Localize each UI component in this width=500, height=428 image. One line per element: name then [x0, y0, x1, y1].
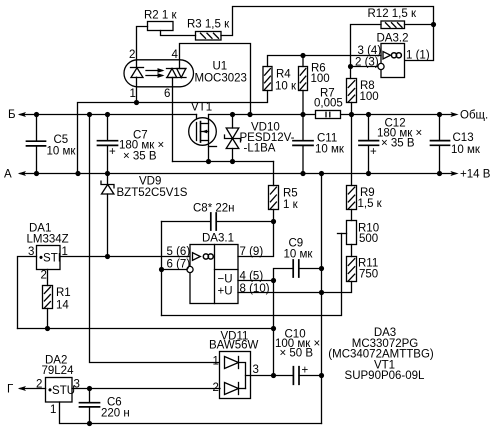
node Б arrow	[18, 112, 26, 117]
svg-text:C8* 22н: C8* 22н	[193, 203, 235, 215]
node +14 В arrow	[450, 171, 458, 176]
svg-text:R12 1,5 к: R12 1,5 к	[368, 8, 417, 20]
U1 triac bottom bar	[167, 77, 187, 79]
DA2 body	[46, 378, 73, 403]
C9 plates	[293, 260, 299, 277]
wire R9 column from bus Общ across bus А	[351, 115, 353, 186]
VD11 diode 1 cathode join	[239, 363, 246, 389]
wire VT1 gate drop	[196, 115, 198, 141]
C13 plates	[431, 141, 450, 146]
wire DA2 pin 1 down and bottom line to +U column	[60, 402, 322, 424]
suppressor VD10 column	[232, 115, 234, 129]
wire C9 branch from pin4 node	[274, 269, 294, 281]
U1 triac top bar	[167, 68, 187, 70]
shunt resistor R7 body	[316, 111, 341, 119]
svg-text:79L24: 79L24	[42, 365, 75, 377]
resistor R4 power slashes	[265, 69, 271, 90]
svg-text:750: 750	[359, 269, 378, 281]
transistor VT1 circle	[189, 118, 217, 146]
resistor R5 body	[269, 186, 279, 210]
wire R8 bottom lead	[351, 103, 353, 115]
wire R12 left lead and column to R8 top	[351, 25, 382, 79]
node junction VD10 bottom	[230, 159, 235, 164]
wire R6 top lead	[302, 56, 304, 67]
svg-text:+: +	[109, 146, 116, 158]
U1 LED triangle	[131, 68, 143, 78]
capacitor C12 column	[368, 115, 370, 141]
svg-text:C5: C5	[54, 134, 69, 146]
svg-text:5 (6): 5 (6)	[167, 246, 191, 258]
wire DA1 pin 3 down to minus-rail line	[18, 257, 37, 329]
wire DA3.1 pin 8 (+U) to R11 bottom	[238, 282, 352, 293]
VD11 diode 1 triangle	[225, 357, 239, 369]
VD11 diode 2 triangle	[225, 383, 239, 395]
svg-text:10 мк: 10 мк	[451, 144, 481, 156]
op-amp DA3.1 body	[190, 245, 238, 304]
U1 light arrow lower	[146, 75, 162, 77]
wire R9-R10 lead	[351, 210, 353, 221]
node junction C6 bottom	[87, 421, 92, 426]
svg-text:VD9: VD9	[139, 176, 161, 188]
VD11 diode 1 cathode bar	[238, 357, 240, 369]
svg-text:100: 100	[360, 91, 379, 103]
wire R10-R11 lead	[351, 245, 353, 257]
wire R6 bottom lead	[302, 91, 304, 115]
svg-text:1: 1	[213, 356, 219, 368]
resistor R6 power slashes	[300, 69, 306, 90]
svg-text:+: +	[302, 365, 309, 377]
wire DA3.1 pin 4 (-U)	[238, 280, 274, 282]
C8 plates	[211, 213, 216, 230]
wire drain line from U1 pin 6 to R5 column	[173, 161, 274, 163]
resistor R11 body	[347, 257, 357, 282]
capacitor C10 wire left	[274, 375, 294, 377]
node junction U1 pin1 on W1	[134, 100, 139, 105]
wire -U column down to VD11/C10 node	[273, 281, 275, 376]
svg-text:MOC3023: MOC3023	[195, 73, 247, 85]
wire R5 bottom lead to C8 node	[273, 210, 275, 222]
C11 plates	[293, 141, 313, 146]
svg-text:BAW56W: BAW56W	[209, 340, 259, 352]
svg-text:•STU: •STU	[48, 385, 75, 397]
wire pin6 feedback column	[161, 222, 163, 316]
svg-text:R2 1 к: R2 1 к	[144, 10, 177, 22]
wire R10 wiper down and feedback line to pin6 column	[162, 234, 342, 316]
resistor R8 power slashes	[348, 81, 354, 102]
svg-text:10 к: 10 к	[275, 81, 297, 93]
svg-text:R3 1,5 к: R3 1,5 к	[187, 19, 230, 31]
node junction VT1 drain	[206, 159, 211, 164]
svg-text:+14 В: +14 В	[460, 169, 491, 181]
resistor R11 power slashes	[348, 259, 354, 281]
U1 light arrow upper	[146, 70, 162, 72]
VD11 body box	[220, 352, 251, 399]
C5 plates	[27, 141, 46, 146]
capacitor C13 column	[439, 115, 441, 141]
resistor R9 power slashes	[348, 187, 354, 209]
svg-text:−U: −U	[218, 274, 233, 286]
VT1 middle stub with substrate arrow	[201, 131, 209, 133]
shunt R7 inner ticks	[326, 112, 330, 116]
DA3.1 triangle marker	[193, 253, 201, 261]
svg-text:1 (1): 1 (1)	[406, 50, 430, 62]
wire DA1 pin 2 to R1	[47, 270, 49, 286]
svg-text:BZT52C5V1S: BZT52C5V1S	[117, 187, 188, 199]
node junction VD11 pin3 / -U column	[271, 373, 276, 378]
C8 wire left part	[162, 221, 211, 223]
svg-text:2 (3): 2 (3)	[355, 57, 379, 69]
U1 LED cathode bar	[131, 67, 144, 69]
C10 plates	[293, 367, 299, 385]
wire DA3.1 pin 6	[162, 269, 187, 271]
VD9 cathode bar with hooks	[101, 181, 114, 188]
resistor R3 power slashes	[201, 33, 219, 38]
svg-text:-L1BA: -L1BA	[244, 143, 276, 155]
svg-text:10 мк: 10 мк	[315, 144, 345, 156]
svg-text:Б: Б	[8, 109, 16, 121]
wire DA2 pin 2 to Г arrow	[20, 388, 46, 390]
op-amp DA3.2 body	[381, 44, 405, 78]
node junction pin2/R12/R8	[348, 64, 353, 69]
wire DA3.2 pin 2 to R8/R12 column	[351, 66, 378, 68]
DA3.1 divider vertical	[214, 245, 216, 304]
resistor R12 power slashes	[386, 23, 403, 28]
VT1 source/bulk tie tick	[209, 146, 217, 148]
wire R2 wiper tap to R3	[161, 31, 196, 36]
capacitor C5 column	[36, 115, 38, 142]
trimmer R10 body	[347, 221, 357, 245]
capacitor C6 column	[89, 389, 91, 403]
svg-text:6 (7): 6 (7)	[167, 259, 191, 271]
node junction pin 4	[271, 278, 276, 283]
DA3.1 inverting bubble pin 6	[187, 266, 193, 272]
svg-text:1,5 к: 1,5 к	[358, 198, 383, 210]
resistor R2 (trimmer) body	[148, 22, 174, 31]
VT1 gate bar	[196, 123, 198, 141]
VD10 middle bar with zener hooks	[225, 135, 241, 142]
wire DA3.2 pin 3 input line from R4/R6 tops	[268, 56, 382, 67]
svg-text:1: 1	[130, 88, 136, 100]
svg-text:8 (10): 8 (10)	[240, 283, 270, 295]
svg-text:DA3.2: DA3.2	[377, 33, 409, 45]
wire DA3.1 pin 7 output up to C8 node	[238, 222, 274, 257]
svg-text:220 н: 220 н	[101, 408, 130, 420]
node junction R1 bottom	[45, 326, 50, 331]
wire +U column from bus А down to bottom line	[321, 174, 323, 424]
resistor R5 power slashes	[270, 187, 276, 209]
svg-text:4: 4	[172, 49, 179, 61]
svg-text:1: 1	[50, 404, 56, 416]
U1 triac left triangle	[167, 69, 177, 78]
svg-text:6: 6	[164, 88, 170, 100]
capacitor C11 column	[302, 115, 304, 141]
VT1 channel bar segments	[200, 122, 202, 143]
DA3.1 divider horizontal	[215, 269, 239, 271]
wire bus Общ (right part after shunt R7)	[341, 114, 453, 116]
svg-text:+: +	[370, 146, 377, 158]
wire U1 pin 1 lead down to W1	[136, 77, 138, 102]
svg-text:14: 14	[56, 300, 69, 312]
DA3.1 infinity symbol	[203, 254, 213, 259]
svg-text:U1: U1	[213, 61, 228, 73]
svg-text:DA3.1: DA3.1	[202, 233, 234, 245]
VD11 diode 2 cathode join	[239, 388, 246, 390]
node А arrow	[18, 171, 26, 176]
svg-text:1 к: 1 к	[283, 199, 299, 211]
svg-text:Общ.: Общ.	[460, 110, 488, 122]
node junction R6 top	[300, 53, 305, 58]
wire U1 pin 6 down to drain line	[172, 78, 174, 162]
wire bus Б column down to VD11 pin 1	[90, 115, 221, 363]
svg-text:R4: R4	[276, 69, 291, 81]
node Г arrow	[18, 386, 26, 391]
resistor R9 body	[347, 186, 357, 210]
wire minus-rail line to -U column	[18, 328, 274, 330]
node junction VD9 bottom on pin5 line	[105, 254, 110, 259]
optocoupler U1 oval body	[124, 60, 194, 87]
wire R12 right lead	[405, 24, 434, 26]
wire drain line drop to R5 (crosses bus А)	[273, 162, 275, 186]
node junction pin 8 / +U column	[319, 290, 324, 295]
wire DA2 pin 3 to VD11 pin 2	[72, 388, 220, 390]
op-amp DA3.2 infinity symbol	[391, 53, 401, 58]
wire R4 bottom lead + line W1 to optocoupler pin1 and +14 column	[78, 91, 268, 174]
C9 wire right part	[299, 268, 322, 270]
VT1 top stub	[201, 123, 209, 125]
resistor R1 power slashes	[44, 287, 50, 308]
node junction pin6	[159, 267, 164, 272]
junction dots on bus А	[34, 171, 442, 176]
svg-text:0,005: 0,005	[314, 98, 343, 110]
svg-text:R1: R1	[56, 287, 71, 299]
resistor R6 body	[299, 67, 308, 91]
DA1 body	[37, 246, 61, 270]
op-amp DA3.2 inverting bubble pin 2	[378, 63, 384, 69]
VD11 diode 2 cathode bar	[238, 383, 240, 395]
svg-text:SUP90P06-09L: SUP90P06-09L	[345, 370, 426, 382]
node junction minus-rail to -U column	[271, 326, 276, 331]
U1 triac right triangle	[177, 69, 186, 78]
svg-text:500: 500	[359, 233, 378, 245]
node junction C9 right	[319, 266, 324, 271]
node junction C6 top	[87, 386, 92, 391]
wire VD11 pin 3 out to C10	[246, 375, 274, 377]
C10 wire right	[299, 375, 322, 377]
svg-text:2: 2	[129, 49, 135, 61]
resistor R12 body	[381, 21, 405, 29]
wire R1 bottom lead	[47, 309, 49, 329]
C6 plates	[80, 403, 100, 407]
svg-text:3: 3	[253, 364, 259, 376]
svg-text:•STI: •STI	[39, 253, 61, 265]
svg-text:10 мк: 10 мк	[47, 146, 77, 158]
svg-text:Г: Г	[7, 384, 14, 396]
VT1 bottom stub	[201, 140, 209, 142]
VD10 bottom triangle	[226, 139, 239, 149]
svg-text:× 50 В: × 50 В	[280, 348, 314, 360]
svg-text:+U: +U	[218, 286, 233, 298]
resistor R8 body	[347, 79, 357, 103]
node junction R12 right / output	[431, 22, 436, 27]
svg-text:100: 100	[311, 73, 330, 85]
resistor R1 body	[43, 286, 53, 309]
node junction C8 right / R5 / pin7	[271, 219, 276, 224]
svg-text:× 35 В: × 35 В	[123, 151, 157, 163]
zener VD9 column from bus А to pin5 line	[107, 174, 109, 185]
resistor R3 body	[196, 32, 222, 41]
wire U1 pin 4 over the top to bus Общ	[180, 44, 251, 115]
C8 wire right part	[216, 221, 273, 223]
svg-text:VT1: VT1	[191, 102, 212, 114]
capacitor C7 column	[107, 115, 109, 141]
wire R3 right lead up and top line to DA3.2 output	[221, 7, 434, 61]
wire bus Общ (right common bus, left part up to shunt R7)	[209, 114, 316, 116]
wire R2 left lead to pin 2 of U1	[137, 27, 148, 68]
svg-text:10 мк: 10 мк	[284, 249, 314, 261]
wire DA1 pin 1 / DA3.1 pin 5 line	[60, 256, 190, 258]
C7 plates	[98, 141, 118, 146]
VD9 triangle	[102, 185, 114, 195]
wire VT1 source terminal to bus Общ and drain down	[208, 115, 210, 162]
svg-text:× 35 В: × 35 В	[381, 138, 415, 150]
VD10 top triangle	[226, 128, 239, 139]
svg-text:LM334Z: LM334Z	[27, 234, 69, 246]
resistor R4 body	[263, 67, 272, 91]
R10 wiper tap	[338, 233, 347, 235]
node Общ arrow	[450, 112, 458, 117]
svg-text:2: 2	[41, 270, 47, 282]
svg-text:C13: C13	[453, 132, 474, 144]
node junction C10 right / +U column	[319, 373, 324, 378]
wire bus Б (left gate-drive bus)	[20, 114, 197, 116]
wire bus А / +14 В	[20, 173, 452, 175]
junction dots on bus Б	[34, 112, 110, 117]
svg-text:R5: R5	[283, 188, 298, 200]
C12 plates	[359, 141, 379, 146]
svg-text:А: А	[4, 169, 12, 181]
junction dots on bus Общ	[230, 112, 442, 117]
op-amp DA3.2 triangle marker	[383, 52, 391, 60]
